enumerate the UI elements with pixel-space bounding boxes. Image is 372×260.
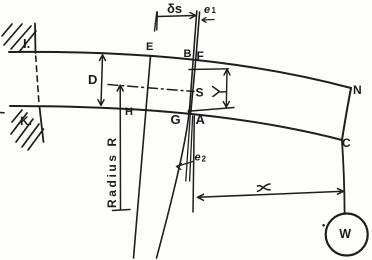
svg-text:H: H xyxy=(125,106,133,118)
wall hidden edge (dashed) xyxy=(36,56,39,104)
label D xyxy=(88,72,97,87)
label Radius R (rotated) xyxy=(105,135,119,208)
svg-text:I.: I. xyxy=(23,36,30,51)
load suspension line C to W xyxy=(342,141,345,214)
label H xyxy=(125,106,133,118)
y dimension line with arrows xyxy=(223,69,230,107)
section line through E (radius construction line) xyxy=(134,56,151,258)
svg-text:Radius R: Radius R xyxy=(105,135,119,208)
radius R dimension line xyxy=(113,85,131,210)
e2 offset arrow xyxy=(177,162,194,170)
svg-text:A: A xyxy=(196,112,206,127)
label W xyxy=(339,227,351,241)
dimension D line with arrows xyxy=(98,55,106,106)
fan line 1 below A xyxy=(186,114,191,181)
label E xyxy=(146,41,153,53)
extension above E line xyxy=(155,12,157,31)
svg-text:N: N xyxy=(353,83,362,97)
stray dot xyxy=(322,224,325,227)
label e2 xyxy=(195,152,207,164)
svg-text:K.: K. xyxy=(20,114,32,128)
svg-text:S: S xyxy=(196,86,204,100)
wall lower hatching xyxy=(11,110,44,150)
svg-text:δs: δs xyxy=(167,1,182,16)
label x (script) xyxy=(258,184,271,191)
svg-text:E: E xyxy=(146,41,153,53)
beam top surface xyxy=(9,52,351,88)
label C xyxy=(342,136,351,150)
svg-text:F: F xyxy=(197,49,204,63)
svg-text:D: D xyxy=(88,72,97,87)
x-dimension extension line below A xyxy=(193,116,194,212)
svg-text:2: 2 xyxy=(202,155,207,164)
smudge at left edge xyxy=(0,112,4,114)
label I xyxy=(23,36,30,51)
label B xyxy=(184,48,192,60)
wall lower edge xyxy=(40,107,44,142)
label F xyxy=(197,49,204,63)
radius construction line from A to centre xyxy=(157,112,190,258)
label A xyxy=(196,112,206,127)
label y (angle glyph) xyxy=(213,87,220,97)
neutral axis centerline (dash-dot) xyxy=(108,85,194,92)
label G xyxy=(171,112,181,127)
junction blob at G-A xyxy=(188,109,192,113)
e1 offset arrow xyxy=(202,18,214,23)
svg-text:G: G xyxy=(171,112,181,127)
section line F-A (rotated) xyxy=(191,12,200,112)
delta-s dimension line xyxy=(157,12,196,30)
label N xyxy=(353,83,362,97)
x dimension line with arrows xyxy=(198,189,344,201)
svg-text:B: B xyxy=(184,48,192,60)
svg-text:e: e xyxy=(204,4,210,16)
beam right end edge N-C xyxy=(342,88,351,140)
label e1 xyxy=(204,4,217,16)
label S xyxy=(196,86,204,100)
svg-text:W: W xyxy=(339,227,351,241)
wall upper hatching xyxy=(2,24,36,52)
label delta-s xyxy=(167,1,182,16)
load circle W xyxy=(326,214,368,256)
y dimension bottom tick xyxy=(191,108,234,112)
section line B-G (original) xyxy=(189,11,197,112)
svg-text:1: 1 xyxy=(212,6,217,15)
y dimension top tick xyxy=(189,68,229,71)
svg-text:e: e xyxy=(195,152,201,164)
y leader dash xyxy=(221,91,227,93)
wall upper edge xyxy=(34,24,37,54)
fan line 2 below A xyxy=(190,116,193,181)
beam bottom surface xyxy=(10,106,342,140)
label K xyxy=(20,114,32,128)
